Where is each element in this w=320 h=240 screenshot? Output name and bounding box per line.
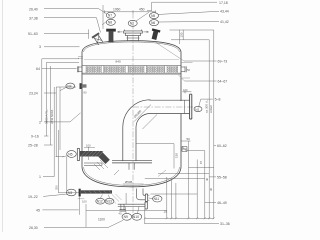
ext hline tangent right <box>189 166 214 168</box>
svg-text:N13: N13 <box>106 200 112 204</box>
dim leader band right bottom <box>178 75 185 82</box>
svg-text:840: 840 <box>116 59 121 63</box>
svg-text:150: 150 <box>180 32 184 37</box>
left dim vline g <box>59 87 61 150</box>
svg-text:26,30: 26,30 <box>29 226 38 230</box>
svg-text:100: 100 <box>183 88 188 92</box>
svg-text:450: 450 <box>139 7 145 11</box>
svg-text:15: 15 <box>199 160 203 164</box>
manway M1 center <box>124 31 143 41</box>
svg-text:ATM NOM.: ATM NOM. <box>50 109 54 124</box>
left dim vline b <box>46 63 79 136</box>
balloon N2 <box>128 20 137 26</box>
svg-text:3: 3 <box>39 45 41 49</box>
upper left nozzle N5s flange <box>77 149 79 161</box>
right ladder vline 2 <box>208 40 210 219</box>
leader 26,40 <box>44 9 106 14</box>
leader 1 <box>43 176 54 178</box>
sheet border line left <box>2 0 4 232</box>
leader 19-22 <box>43 194 66 196</box>
svg-text:15: 15 <box>164 210 168 214</box>
dim vline bottom cluster <box>125 193 127 204</box>
leader 46-49 <box>205 202 216 204</box>
ext hline n11b <box>145 178 205 180</box>
leader 31-36 <box>144 222 219 224</box>
leader 51-63 <box>44 33 89 35</box>
balloon N5 <box>150 13 159 19</box>
upper left nozzle pipe dark <box>80 151 103 157</box>
svg-text:N5: N5 <box>151 14 155 18</box>
balloon N7 <box>106 12 115 18</box>
svg-text:100: 100 <box>86 144 91 148</box>
balloon N4 leader <box>60 88 66 91</box>
svg-text:64–67: 64–67 <box>218 80 228 84</box>
top head <box>82 41 181 52</box>
lower left nozzle flange <box>79 189 81 197</box>
svg-text:N11: N11 <box>154 197 160 201</box>
balloon N8 <box>106 19 115 25</box>
upper left pipe white hatch <box>81 151 104 157</box>
ext hline n9 <box>150 193 197 195</box>
leader 37,38 <box>44 18 106 33</box>
svg-text:41,42: 41,42 <box>220 20 229 24</box>
svg-text:55–58: 55–58 <box>217 175 227 179</box>
svg-text:17,18: 17,18 <box>219 1 228 5</box>
dim ext line left <box>102 5 104 29</box>
pipe horizontal top <box>150 99 190 101</box>
demister band top line <box>82 65 181 67</box>
svg-text:N4: N4 <box>67 84 71 88</box>
svg-text:80: 80 <box>84 91 87 95</box>
svg-text:43,44: 43,44 <box>220 10 229 14</box>
leader N1 to 5-8 <box>199 99 213 106</box>
right dim hline y31 <box>170 29 214 31</box>
svg-text:25–28: 25–28 <box>28 144 38 148</box>
svg-text:9–16: 9–16 <box>31 135 39 139</box>
demister band lower line2 <box>82 74 181 76</box>
chain dim ticks <box>144 217 215 219</box>
dim 50 at wall <box>181 141 191 218</box>
elbow pipe outer arc <box>123 100 150 127</box>
svg-text:31–36: 31–36 <box>220 222 230 226</box>
svg-text:N2: N2 <box>130 22 134 26</box>
top head inner line <box>84 42 180 52</box>
bottom chain dim <box>145 217 214 219</box>
bottom head <box>82 167 181 187</box>
bottom horizontal pipe flange <box>145 202 147 209</box>
dim 150 pipe end <box>136 144 174 169</box>
svg-text:100: 100 <box>82 200 87 204</box>
dim 508 bottom <box>123 183 144 185</box>
svg-text:N10: N10 <box>133 215 139 219</box>
nozzle N7 flange <box>106 29 116 32</box>
demister band bottom line <box>82 72 181 74</box>
balloon N10 leader <box>138 207 140 214</box>
svg-text:N1: N1 <box>195 107 199 111</box>
elbow mitre lines <box>134 105 157 130</box>
leader 26,30 <box>44 220 123 227</box>
leader 25-28 <box>44 144 53 146</box>
nozzle N1 flange <box>190 94 192 119</box>
left dim vline f <box>58 130 79 193</box>
left dim vline c <box>49 66 51 145</box>
balloon N9 leader <box>125 207 126 214</box>
balloon N9 <box>122 213 132 220</box>
leader 9-16 <box>44 135 48 137</box>
nozzle N7 vertical <box>109 32 113 43</box>
dim leader band right top <box>156 43 184 62</box>
pipe horizontal bottom <box>150 113 189 115</box>
svg-text:N3: N3 <box>68 191 72 195</box>
right ladder vline 4 <box>196 160 198 219</box>
shell left wall <box>81 52 83 167</box>
pipe vertical right <box>135 127 137 161</box>
leader 3 <box>44 46 80 48</box>
svg-text:Anlief.: Anlief. <box>209 104 213 113</box>
elbow pipe inner arc <box>136 113 150 127</box>
left aux vline <box>66 157 68 195</box>
left dim vline d <box>53 87 55 177</box>
centerline elbow horizontal <box>133 106 201 108</box>
internal sparger pipe <box>84 163 102 165</box>
demister left stub <box>78 66 82 72</box>
pipe vertical left <box>122 127 124 161</box>
lower left nozzle pipe hatch <box>83 190 112 194</box>
leader 64 <box>42 67 77 69</box>
svg-text:69–73: 69–73 <box>218 60 228 64</box>
leader 55-58 <box>209 176 216 178</box>
svg-text:26,40: 26,40 <box>29 7 38 11</box>
bottom center elbow flange <box>145 194 147 202</box>
balloon N4 <box>66 83 75 89</box>
bottom stub valve <box>120 205 126 212</box>
svg-text:DN300: DN300 <box>133 109 143 119</box>
demister panel edge lines <box>86 66 178 74</box>
svg-text:30: 30 <box>209 187 213 191</box>
balloon N6 <box>150 20 159 26</box>
svg-text:60–62: 60–62 <box>217 144 227 148</box>
svg-text:51–63: 51–63 <box>28 32 38 36</box>
nozzle N1 dim 100 <box>182 91 191 93</box>
svg-text:64: 64 <box>36 67 40 71</box>
impingement plate <box>112 161 152 163</box>
leader 69-73 <box>184 60 217 62</box>
bottom dim vlines <box>145 177 176 223</box>
svg-text:40: 40 <box>119 212 122 216</box>
leader 60-62 <box>214 144 216 146</box>
pipe support bracket <box>182 147 187 152</box>
demister packing panels <box>86 66 178 72</box>
nozzle tilted left N8 <box>92 32 105 45</box>
dim bracket under flange <box>78 198 85 200</box>
lower left nozzle pipe dark <box>81 190 112 193</box>
upper left nozzle hatch <box>94 160 108 170</box>
tangent tick left <box>78 57 83 59</box>
svg-text:Ø508: Ø508 <box>125 180 132 184</box>
balloon N10 <box>132 213 142 220</box>
balloon N3 <box>67 189 77 196</box>
manway side arrows <box>118 31 149 33</box>
dim vline head <box>88 29 90 38</box>
right ladder vline 3 <box>187 151 205 219</box>
demister right stub <box>181 66 186 72</box>
left dim vline e <box>56 87 76 157</box>
svg-text:N6: N6 <box>151 21 155 25</box>
bottom dim hline 1100 <box>86 204 167 227</box>
svg-text:2: 2 <box>39 120 41 124</box>
svg-text:150: 150 <box>175 153 179 158</box>
drain hatch diagonals <box>111 194 122 204</box>
leader 45 <box>42 209 78 211</box>
balloon N5s leader <box>56 156 67 157</box>
svg-text:1: 1 <box>39 175 41 179</box>
leader N6 to 41,42 <box>159 20 220 23</box>
svg-text:40: 40 <box>205 177 209 181</box>
balloon N12 leader <box>100 195 102 199</box>
svg-text:N8: N8 <box>108 21 112 25</box>
left wall stub nozzle <box>80 83 82 89</box>
balloon N13 leader <box>109 195 110 199</box>
head thickness leader <box>158 170 166 177</box>
svg-text:N9: N9 <box>124 215 128 219</box>
svg-text:1060: 1060 <box>113 7 121 11</box>
right dim hline y39.5 <box>171 39 209 41</box>
flange bottom vline for 45 <box>79 196 81 214</box>
leader 2 <box>44 113 81 122</box>
ext hline n11a <box>158 173 209 175</box>
manway top bolts <box>125 30 142 31</box>
svg-text:5900 A.T.L.: 5900 A.T.L. <box>44 109 48 124</box>
top dim line <box>104 10 155 13</box>
balloon N11 leader <box>149 197 153 200</box>
bottom center elbow pipe <box>137 189 146 200</box>
leader 64-67 <box>185 80 217 82</box>
right dim ext nozzle <box>179 30 183 44</box>
left dim vline a <box>42 59 79 122</box>
dim vline small inside <box>88 147 90 160</box>
plate leader <box>114 170 119 175</box>
bottom horizontal pipe <box>118 204 145 206</box>
svg-text:19–22: 19–22 <box>28 195 38 199</box>
svg-text:37,38: 37,38 <box>29 16 38 20</box>
wall weld tick right <box>184 91 187 94</box>
bottom head inner line <box>84 167 180 185</box>
balloon N12 <box>96 198 105 204</box>
svg-text:50: 50 <box>187 137 191 141</box>
svg-text:45: 45 <box>36 208 40 212</box>
nozzle tilted right N5 <box>150 28 161 40</box>
svg-text:5–8: 5–8 <box>215 97 221 101</box>
leader 17,18 <box>147 2 217 11</box>
right stub dim lines <box>181 63 193 78</box>
dim 100 above pipe <box>84 147 95 149</box>
dim 840 inside vessel <box>84 58 179 60</box>
svg-text:50: 50 <box>187 68 190 72</box>
upper left nozzle bend dark <box>97 151 109 164</box>
svg-text:46–49: 46–49 <box>217 201 227 205</box>
elbow flange bolts <box>148 195 149 200</box>
balloon N1 <box>194 106 202 111</box>
right ladder vline 1 <box>213 30 215 218</box>
svg-text:N5: N5 <box>68 153 72 157</box>
nozzle neck weld line <box>183 101 185 114</box>
balloon N13 <box>105 198 114 204</box>
svg-text:1100: 1100 <box>98 218 105 222</box>
svg-text:350: 350 <box>55 185 59 190</box>
svg-text:23,24: 23,24 <box>29 92 38 96</box>
leader 23,24 <box>44 92 56 94</box>
leader N5 to 43,44 <box>159 11 220 14</box>
shell right wall <box>180 52 182 167</box>
balloon N11 <box>153 196 162 202</box>
svg-text:N12: N12 <box>97 200 103 204</box>
balloon N2 leader <box>136 12 149 21</box>
svg-text:N7: N7 <box>108 14 112 18</box>
balloon N5s <box>67 151 77 158</box>
drain stub below plate <box>129 163 134 170</box>
centerline vertical vessel <box>132 13 134 216</box>
